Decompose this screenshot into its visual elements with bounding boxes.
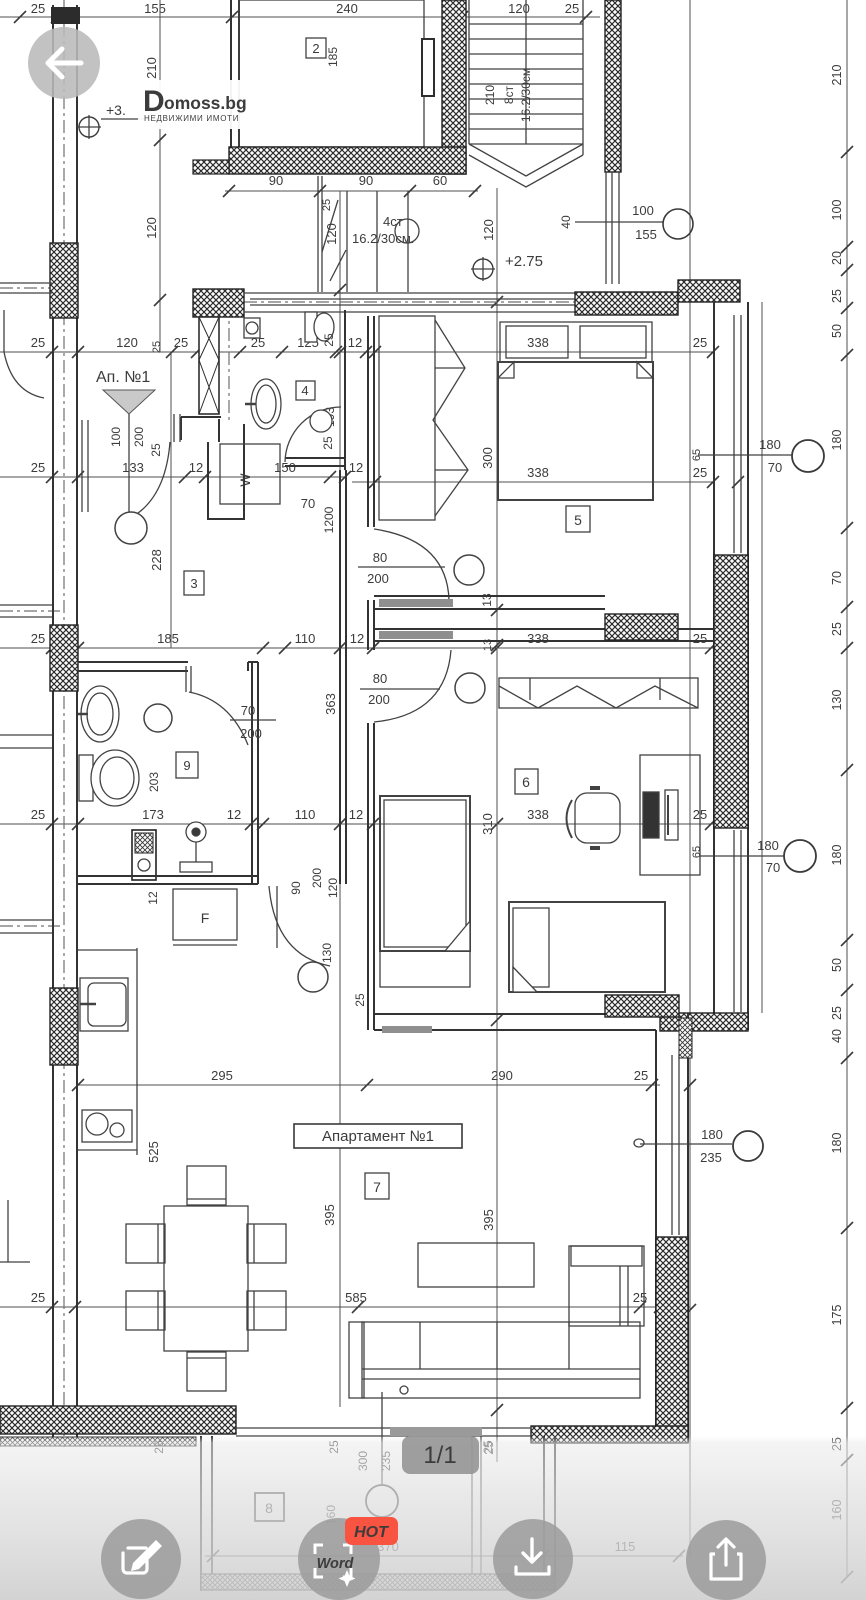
kitchen door arc: [269, 886, 330, 992]
svg-text:12: 12: [227, 807, 241, 822]
balcony label box 8: [255, 1493, 284, 1521]
svg-text:25: 25: [830, 622, 844, 636]
kitchen cooktop: [82, 1110, 132, 1142]
right wall window bedroom5: [734, 315, 741, 553]
svg-text:70: 70: [301, 496, 315, 511]
vertical dim line x=690: [684, 0, 696, 1556]
gray wall fills: [379, 599, 453, 607]
svg-text:110: 110: [295, 631, 316, 646]
svg-text:120: 120: [116, 335, 138, 350]
svg-text:16.2/30см.: 16.2/30см.: [352, 231, 414, 246]
svg-text:25: 25: [151, 341, 163, 353]
dimension row y=482 bedroom5: [352, 465, 744, 488]
lower flight 4 steps: [318, 176, 408, 292]
entry/room3 divider line x=171: [170, 352, 172, 648]
svg-text:120: 120: [324, 223, 339, 245]
vertical dim line x=340: [321, 191, 346, 1407]
right lower wall faces: [656, 1013, 688, 1443]
svg-text:5: 5: [574, 512, 582, 528]
right wall corner step hatched: [660, 1013, 748, 1031]
svg-text:200: 200: [310, 868, 324, 888]
staircase treads: [469, 0, 583, 155]
washing machine W: [220, 444, 280, 504]
svg-text:3: 3: [190, 576, 197, 591]
vertical grid line x=64 dash-dot: [63, 0, 65, 1447]
svg-text:210: 210: [144, 57, 159, 79]
bathroom4 sink: [245, 379, 281, 429]
svg-text:338: 338: [527, 631, 549, 646]
svg-text:70: 70: [768, 460, 782, 475]
svg-text:12: 12: [348, 335, 362, 350]
svg-text:180: 180: [830, 845, 844, 866]
svg-text:8ст: 8ст: [502, 85, 516, 104]
room6 bed horizontal: [509, 902, 665, 992]
svg-text:65: 65: [691, 449, 703, 461]
top room 2 bottom hatched wall band: [229, 147, 466, 174]
word button: [298, 1518, 380, 1600]
kitchen sink: [80, 978, 128, 1031]
download button: [493, 1519, 573, 1599]
dimension row y=648: [0, 631, 717, 654]
bedroom5 bed headboard pillows: [500, 322, 652, 362]
neighbor door arc left edge: [4, 310, 44, 398]
svg-text:12: 12: [146, 891, 160, 905]
wall bedroom5/room6: [374, 596, 714, 641]
svg-text:155: 155: [635, 227, 657, 242]
svg-text:W: W: [237, 473, 253, 487]
svg-text:70: 70: [766, 860, 780, 875]
svg-text:+3.: +3.: [106, 102, 126, 118]
svg-text:240: 240: [336, 1, 358, 16]
svg-text:70: 70: [830, 571, 844, 585]
svg-text:80: 80: [373, 550, 387, 565]
dimension row y=352: [0, 335, 719, 358]
kitchen door rotated labels: [289, 868, 340, 963]
svg-text:50: 50: [830, 958, 844, 972]
right wall outer sill line: [761, 302, 763, 1013]
balcony door slab: [390, 1427, 482, 1436]
svg-text:25: 25: [149, 443, 163, 457]
storage F box: [173, 889, 237, 945]
svg-text:173: 173: [142, 807, 164, 822]
svg-text:12: 12: [349, 807, 363, 822]
entry marker Ap N1: [96, 369, 163, 512]
apartment top wall hatched left segment: [193, 289, 244, 317]
svg-text:60: 60: [433, 173, 447, 188]
room6 wardrobe zigzag: [499, 678, 698, 708]
small appliance hatched box: [132, 830, 156, 880]
svg-text:300: 300: [480, 447, 495, 469]
left wall hatched block 2: [50, 625, 78, 691]
bottom wall hatched right segment: [531, 1426, 688, 1443]
svg-text:155: 155: [144, 1, 166, 16]
svg-text:25: 25: [31, 1290, 45, 1305]
right wall window room6: [734, 830, 741, 1012]
bottom sheet gradient overlay: [0, 1436, 866, 1600]
svg-text:200: 200: [368, 692, 390, 707]
svg-text:НЕДВИЖИМИ ИМОТИ: НЕДВИЖИМИ ИМОТИ: [144, 114, 239, 123]
room6 south wall door slab: [382, 1026, 432, 1033]
svg-text:80: 80: [373, 671, 387, 686]
apartment top wall hatched right segment: [575, 292, 678, 315]
svg-text:+2.75: +2.75: [505, 253, 543, 270]
balcony left wall: [201, 1436, 212, 1591]
svg-text:210: 210: [830, 65, 844, 86]
bathroom4 toilet: [305, 312, 334, 342]
svg-text:90: 90: [359, 173, 373, 188]
right lower wall window: [672, 1055, 679, 1235]
dimension row y=824: [0, 807, 717, 830]
bottom wall left lower thin strip: [0, 1437, 196, 1446]
wall WC9 / kitchen: [78, 876, 258, 884]
svg-text:90: 90: [289, 881, 303, 895]
WC9 right wall: [252, 662, 258, 884]
balcony right wall: [544, 1436, 555, 1591]
svg-text:25: 25: [31, 460, 45, 475]
svg-text:HOT: HOT: [354, 1524, 389, 1541]
svg-text:338: 338: [527, 807, 549, 822]
svg-text:295: 295: [211, 1068, 233, 1083]
WC9 toilet: [79, 750, 139, 806]
svg-text:25: 25: [321, 199, 333, 211]
right outer wall faces upper: [714, 302, 748, 1030]
svg-text:235: 235: [700, 1150, 722, 1165]
svg-text:180: 180: [701, 1127, 723, 1142]
svg-text:25: 25: [31, 631, 45, 646]
svg-text:180: 180: [830, 430, 844, 451]
balcony inner line pair: [472, 1436, 481, 1591]
logo Domoss.bg: [143, 85, 247, 123]
balcony circle marker: [366, 1392, 398, 1517]
svg-text:180: 180: [757, 838, 779, 853]
dimension row y=477 left: [0, 460, 363, 483]
balcony bottom edge: [201, 1574, 555, 1590]
svg-text:395: 395: [481, 1209, 496, 1231]
boiler symbol: [180, 822, 212, 872]
svg-text:16.2/30см: 16.2/30см: [519, 68, 533, 122]
dim labels top row: [31, 1, 579, 16]
right dimension line x=847: [830, 0, 853, 1583]
svg-text:Ап. №1: Ап. №1: [96, 369, 150, 386]
svg-text:175: 175: [830, 1305, 844, 1326]
svg-text:25: 25: [31, 1, 45, 16]
svg-text:40: 40: [559, 215, 573, 229]
svg-text:133: 133: [122, 460, 144, 475]
WC9 door label 70/200: [230, 703, 276, 741]
svg-text:100: 100: [109, 427, 123, 447]
dining table: [164, 1206, 248, 1351]
dining chairs: [126, 1166, 286, 1391]
share button: [686, 1520, 766, 1600]
bathroom4 walls: [181, 310, 345, 520]
bedroom5 wardrobe: [379, 316, 468, 520]
door bedroom5 80/200: [358, 529, 484, 600]
svg-text:25: 25: [322, 333, 336, 347]
lower flight label 4ст: [352, 214, 419, 246]
svg-text:200: 200: [240, 726, 262, 741]
balcony rotated labels: [152, 1440, 495, 1525]
svg-text:25: 25: [633, 1290, 647, 1305]
apartment entry door: [82, 414, 180, 544]
room6 window marker 180/70: [700, 838, 816, 875]
svg-text:25: 25: [31, 335, 45, 350]
window marker 180/235: [634, 1127, 763, 1165]
window lines below stair wall: [606, 172, 619, 284]
apartment label box: [294, 1124, 462, 1148]
WC9 label box: [176, 752, 198, 778]
left wall hatched block 3: [50, 988, 78, 1065]
svg-text:25: 25: [693, 335, 707, 350]
svg-text:9: 9: [183, 758, 190, 773]
wall hatched segment between rooms: [605, 614, 678, 640]
svg-text:338: 338: [527, 465, 549, 480]
svg-text:150: 150: [274, 460, 296, 475]
svg-text:290: 290: [491, 1068, 513, 1083]
room6 bottom hatched block: [605, 995, 679, 1017]
left wall hatched block 1: [50, 243, 78, 318]
top room 2 right hatched wall: [442, 0, 466, 174]
svg-text:25: 25: [174, 335, 188, 350]
bedroom5 bed mattress: [498, 362, 653, 500]
svg-text:185: 185: [326, 47, 340, 67]
WC9 top wall: [78, 662, 258, 671]
svg-text:omoss.bg: omoss.bg: [164, 93, 247, 113]
kitchen counter: [78, 948, 137, 1155]
window marker 100/155 top right: [559, 203, 693, 242]
room3 label box: [184, 571, 204, 595]
logo backdrop: [138, 80, 250, 129]
wall right of stairs hatched strip: [605, 0, 621, 172]
svg-text:203: 203: [147, 772, 161, 792]
svg-text:25: 25: [693, 631, 707, 646]
room6 south wall: [374, 1014, 656, 1030]
svg-text:25: 25: [321, 436, 335, 450]
svg-text:1200: 1200: [322, 506, 336, 533]
corridor walls: [340, 316, 374, 1030]
room 2 door leaf white rect: [422, 39, 434, 96]
svg-text:130: 130: [320, 943, 334, 963]
svg-text:180: 180: [830, 1133, 844, 1154]
svg-text:25: 25: [353, 993, 367, 1007]
living room label box 7: [365, 1173, 389, 1199]
svg-text:25: 25: [693, 465, 707, 480]
bedroom5 window marker 180/70: [691, 437, 824, 475]
hatch band thin extension left: [193, 160, 229, 174]
right wall corner hatch strip: [679, 1018, 692, 1058]
staircase labels rotated: [483, 68, 533, 122]
room6 desk: [640, 755, 700, 875]
vertical dim line x=497: [480, 188, 503, 1462]
svg-text:Word: Word: [317, 1556, 355, 1572]
svg-text:395: 395: [322, 1204, 337, 1226]
svg-text:110: 110: [295, 807, 316, 822]
kitchen door jamb: [276, 886, 278, 948]
left wall top black cap: [51, 7, 80, 24]
left edge wall stubs: [0, 283, 52, 1262]
svg-text:120: 120: [481, 219, 496, 241]
HOT badge: [345, 1517, 398, 1545]
room 2 label box: [306, 38, 326, 58]
svg-text:185: 185: [157, 631, 179, 646]
svg-text:40: 40: [830, 1029, 844, 1043]
back button circle: [28, 27, 100, 99]
svg-text:130: 130: [830, 690, 844, 711]
room6 bed vertical: [380, 796, 470, 987]
svg-text:25: 25: [830, 289, 844, 303]
svg-text:180: 180: [759, 437, 781, 452]
svg-text:210: 210: [483, 85, 497, 105]
level mark +3. top left: [77, 102, 160, 139]
TV stand: [418, 1243, 534, 1287]
dimension row y=1085: [72, 1068, 660, 1091]
svg-text:200: 200: [132, 427, 146, 447]
left outer wall faces: [53, 5, 77, 1445]
dimension row y=1307: [0, 1290, 690, 1313]
svg-text:585: 585: [345, 1290, 367, 1305]
svg-text:200: 200: [367, 571, 389, 586]
vertical grid line x=333/395 labels: [322, 1204, 337, 1226]
bathroom4 label box: [296, 381, 315, 400]
top right corner hatched: [678, 280, 740, 302]
bottom wall left hatched band: [0, 1406, 236, 1434]
top room 2 interior outline: [239, 0, 424, 147]
svg-text:2: 2: [312, 41, 319, 56]
staircase bottom chevron arrow: [469, 144, 583, 187]
svg-text:6: 6: [522, 774, 530, 790]
svg-text:1/1: 1/1: [423, 1442, 456, 1469]
svg-text:90: 90: [269, 173, 283, 188]
svg-text:363: 363: [323, 693, 338, 715]
vertical dim line x=160: [144, 0, 166, 352]
bathroom4 rotated labels: [322, 333, 337, 427]
svg-text:338: 338: [527, 335, 549, 350]
svg-text:50: 50: [830, 324, 844, 338]
svg-text:70: 70: [241, 703, 255, 718]
svg-text:100: 100: [830, 200, 844, 221]
level mark +2.75: [471, 253, 543, 281]
svg-text:20: 20: [830, 251, 844, 265]
room6 chair: [567, 788, 621, 848]
svg-text:310: 310: [480, 813, 495, 835]
WC9 sink: [78, 686, 119, 742]
svg-text:228: 228: [149, 549, 164, 571]
svg-text:100: 100: [632, 203, 654, 218]
svg-text:25: 25: [31, 807, 45, 822]
svg-text:25: 25: [634, 1068, 648, 1083]
right lower wall hatched: [656, 1237, 688, 1433]
svg-text:120: 120: [326, 878, 340, 898]
svg-text:25: 25: [565, 1, 579, 16]
svg-text:Апартамент №1: Апартамент №1: [322, 1128, 434, 1145]
svg-text:12: 12: [350, 631, 364, 646]
apartment top wall window zone: [244, 293, 580, 312]
svg-text:7: 7: [373, 1179, 381, 1195]
WC9 door leaf and arc: [144, 666, 248, 745]
bedroom5 label box: [566, 506, 590, 532]
bathroom4 door arc + knob: [285, 407, 341, 462]
svg-text:25: 25: [830, 1006, 844, 1020]
left wall stub dashdot lines: [0, 288, 580, 926]
room6 label box: [515, 769, 538, 794]
small corner sink: [244, 318, 260, 338]
balcony sliding door lines: [236, 1428, 531, 1436]
svg-text:525: 525: [146, 1141, 161, 1163]
top room 2 left wall: [231, 0, 239, 150]
svg-text:12: 12: [189, 460, 203, 475]
dimension row top y=17: [0, 11, 600, 23]
dimension row y=1556 balcony: [205, 1539, 685, 1562]
edit button: [101, 1519, 181, 1599]
svg-text:120: 120: [144, 217, 159, 239]
page badge 1/1: [402, 1436, 479, 1474]
sofa L-shape: [349, 1246, 644, 1398]
vent shaft with X bracing: [199, 317, 219, 414]
dimension row y=191 (90/90/60): [223, 173, 481, 211]
svg-text:4: 4: [301, 383, 308, 398]
svg-text:12: 12: [349, 460, 363, 475]
door room6 80/200: [360, 650, 485, 722]
svg-text:F: F: [201, 910, 210, 926]
right wall hatched segment: [714, 555, 748, 828]
